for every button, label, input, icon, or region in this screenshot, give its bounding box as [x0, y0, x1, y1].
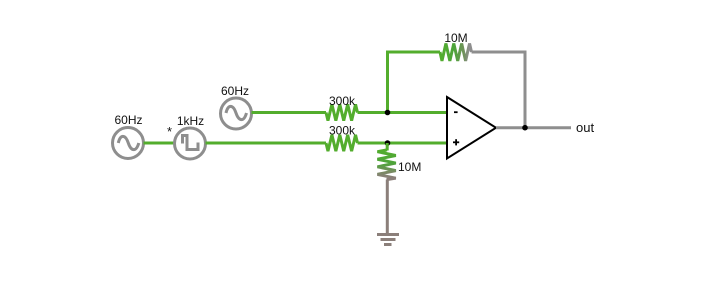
node junction (output)	[522, 125, 528, 131]
gray wire down to output node	[524, 51, 527, 128]
output wire	[496, 126, 571, 129]
node junction (plus input)	[385, 140, 391, 146]
wire V1 to V2	[144, 142, 175, 145]
wire V3 to R1	[252, 111, 327, 114]
wire V2 to R2	[206, 142, 327, 145]
resistor R2 300k (bottom input)	[326, 135, 358, 151]
op-amp U1	[447, 97, 496, 159]
wire R4 to ground	[386, 180, 389, 235]
node junction (minus input)	[385, 110, 391, 116]
gray wire R3 to output corner	[472, 51, 527, 54]
wire R2 to op-amp plus input	[358, 142, 448, 145]
svg-text:10M: 10M	[398, 160, 421, 174]
svg-text:10M: 10M	[444, 31, 467, 45]
resistor R4 10M (to ground)	[386, 143, 389, 151]
svg-text:out: out	[576, 120, 594, 135]
svg-text:60Hz: 60Hz	[221, 84, 249, 98]
svg-text:60Hz: 60Hz	[114, 113, 142, 127]
svg-text:1kHz: 1kHz	[177, 114, 204, 128]
feedback wire top horizontal	[386, 51, 440, 54]
AC source V3 60Hz (top)	[221, 98, 252, 129]
svg-text:*: *	[167, 124, 172, 139]
svg-text:300k: 300k	[329, 94, 356, 108]
wire R1 to op-amp minus input	[358, 111, 448, 114]
svg-text:300k: 300k	[329, 124, 356, 138]
op-amp plus sign	[453, 139, 459, 145]
AC source V1 60Hz (left)	[113, 128, 144, 159]
resistor R3 10M (feedback)	[440, 44, 472, 61]
square-wave source V2 1kHz	[175, 128, 206, 159]
op-amp minus sign	[454, 111, 458, 113]
resistor R1 300k (top input)	[326, 104, 358, 120]
ground symbol	[377, 235, 399, 245]
feedback wire up from minus node	[386, 51, 389, 115]
